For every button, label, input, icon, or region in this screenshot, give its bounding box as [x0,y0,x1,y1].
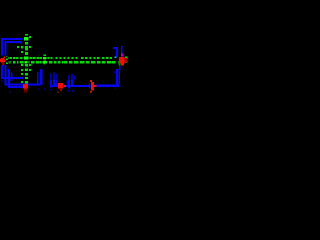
capacitor C1 blue plate tick [89,84,91,89]
node: red via pad near x60 [58,83,63,88]
wire: blue trace A2 left vertical [5,41,7,85]
wire: dim blue verticals mid group [50,74,52,81]
wire: blue vertical riser x40 [40,69,42,85]
capacitor C1 bottom dot [90,91,92,93]
wire: blue trace A3 vertical [8,69,10,87]
node: red arrow pad at left edge [0,58,6,63]
wire: blue trace A2 bottom horizontal [5,83,42,85]
wire: blue vertical riser x37 [37,72,39,85]
wire: blue trace A1 stub below [1,80,3,82]
node: green first dash row2 [6,62,8,64]
wire: blue right notch [114,71,116,73]
wire: blue trace A1 bottom horizontal [1,77,23,79]
wire: blue right step [116,69,120,71]
transistor Q1 dark red right edge [125,58,127,62]
node: green cross stub x44 between rows [44,59,46,60]
node: green dashed net row 2 (horizontal) [9,61,12,63]
wire: blue trace A1 left vertical [1,38,3,79]
wire: small dim blue dots below bottom lines [9,91,11,92]
node: green pad block top of vertical net [24,37,28,41]
node: green side dots right column x29 [29,36,31,38]
node: green dot x17 [17,46,19,48]
wire: blue vertical lead 2 of Q1 [121,46,123,54]
wire: blue trace A2 end hook [21,41,23,44]
wire: blue trace A4 short vertical stub [11,73,13,79]
wire: blue bend of vertical B into via [53,83,57,85]
wire: blue trace A3 bottom horizontal [8,86,24,88]
node: green cross stub x44 above row1 [44,54,46,56]
node: green side dots left column x21 [21,46,23,49]
node: cyan overlap dash on row1 [115,56,117,58]
black mask where red arrow pad hides blue verticals [0,56,6,65]
capacitor C1 right lead [94,85,97,87]
node: red via on mid bottom line [23,84,28,89]
node: green dash right of Q1 row1 [125,56,127,58]
wire: blue trace A2 top horizontal [5,41,22,43]
wire: blue elbow to transistor Q1 [113,47,118,49]
node: green cross stub x44 below row2 [44,64,46,65]
wire: blue trace A1 top horizontal [1,38,23,40]
node: dim green dash right of Q1 row2 [125,61,127,63]
wire: blue right vertical riser 2 [119,71,121,84]
capacitor C1 red plate bar [91,82,94,91]
node: green dot x6 [6,56,7,57]
node: green junction dash row2 [24,61,27,63]
wire: blue bottom right horizontal [96,85,119,87]
transistor Q1 red pad block [119,57,125,64]
node: green dashed net vertical line x25 [25,34,28,36]
capacitor C1 top dot [90,80,92,82]
node: green first dash row1 [6,58,8,60]
wire: blue right stub to pad [119,65,121,70]
wire: blue bottom middle horizontal [50,85,89,87]
node: green dashed net row 1 (horizontal) [8,57,10,59]
transistor Q1 magenta via [121,54,123,57]
wire: blue right vertical riser 1 [116,70,118,85]
wire: bright blue verticals mid group [50,80,52,87]
node: red arrow pad apex dot [4,56,6,58]
node: dark green dashes near Q1 [118,61,121,64]
node: red dash on line x64 [64,85,66,87]
wire: blue dash below A1 bottom [10,79,13,80]
transistor Q1 bottom red blob [121,63,124,65]
node: green junction block at band crossing [24,57,28,60]
node: red arrow pad dark fringe [2,63,5,65]
